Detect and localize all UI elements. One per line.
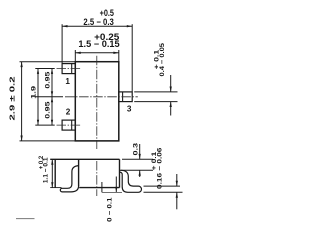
svg-text:0.95: 0.95 bbox=[44, 71, 51, 89]
svg-text:2.5 − 0.3: 2.5 − 0.3 bbox=[83, 17, 113, 27]
svg-text:0.4 − 0.05: 0.4 − 0.05 bbox=[159, 43, 166, 77]
svg-text:0.16 − 0.06: 0.16 − 0.06 bbox=[157, 147, 164, 189]
svg-text:1.1 − 0.1: 1.1 − 0.1 bbox=[43, 157, 50, 183]
svg-text:0 − 0.1: 0 − 0.1 bbox=[107, 197, 114, 222]
svg-text:0.95: 0.95 bbox=[44, 101, 51, 119]
svg-text:1.5 − 0.15: 1.5 − 0.15 bbox=[78, 39, 119, 49]
svg-text:1: 1 bbox=[65, 77, 70, 86]
svg-text:1.9: 1.9 bbox=[30, 85, 37, 99]
svg-text:2.9 ± 0.2: 2.9 ± 0.2 bbox=[7, 77, 16, 121]
svg-text:2: 2 bbox=[66, 108, 71, 117]
svg-text:3: 3 bbox=[127, 105, 132, 114]
svg-text:0.3: 0.3 bbox=[133, 142, 140, 155]
